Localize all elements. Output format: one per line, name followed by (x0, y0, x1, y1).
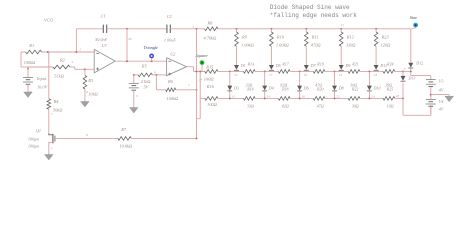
svg-text:100kΩ: 100kΩ (24, 60, 37, 65)
wire rail corner down (410, 29, 412, 63)
resistor R8 (205, 27, 219, 31)
wire chain2 to V4 (402, 98, 404, 115)
op-amp U3 (94, 49, 115, 73)
svg-text:19Ω: 19Ω (387, 103, 394, 108)
svg-text:D12: D12 (415, 61, 423, 66)
svg-text:D3: D3 (233, 85, 239, 90)
ground R3 (81, 102, 90, 108)
node Triangle flag (151, 58, 153, 61)
op-amp U2 (167, 58, 187, 76)
svg-text:4.70kΩ: 4.70kΩ (204, 36, 218, 41)
resistor R15 (200, 70, 205, 72)
node feedback (126, 28, 128, 30)
resistor R9 (236, 28, 238, 30)
svg-text:14: 14 (267, 94, 271, 98)
svg-text:D7: D7 (310, 63, 317, 68)
svg-text:R21: R21 (351, 62, 358, 67)
svg-text:D8: D8 (338, 85, 344, 90)
svg-text:R16: R16 (206, 84, 215, 89)
diode D7 (304, 65, 309, 70)
svg-text:100Ω: 100Ω (204, 77, 215, 82)
svg-text:V4: V4 (439, 99, 444, 104)
diode D1 (234, 65, 239, 70)
ground V2 (130, 108, 139, 114)
svg-text:330Ω: 330Ω (346, 42, 357, 47)
svg-text:Diode Shaped Sine wave: Diode Shaped Sine wave (270, 4, 350, 11)
resistor R10 (270, 28, 272, 30)
battery V4 (426, 98, 436, 100)
wire R12 to diode (340, 46, 342, 65)
svg-text:12: 12 (234, 73, 238, 77)
svg-text:47Ω: 47Ω (317, 103, 324, 108)
svg-text:D6: D6 (303, 85, 309, 90)
ground supply (431, 94, 449, 96)
diode D5 (269, 65, 274, 70)
wire D12 to V3 (411, 75, 431, 77)
svg-text:50kΩ: 50kΩ (53, 107, 63, 112)
svg-text:10kΩ: 10kΩ (88, 92, 98, 97)
node junction R1-R4 (47, 51, 49, 53)
diode D3 (229, 70, 231, 72)
svg-text:R3: R3 (87, 78, 94, 83)
wire chain1 segment 4 (375, 70, 377, 73)
svg-text:16: 16 (302, 94, 306, 98)
wire R2 to plus input (70, 66, 75, 68)
svg-text:U2: U2 (170, 51, 175, 56)
svg-text:30Ω: 30Ω (352, 103, 359, 108)
resistor R20 (290, 97, 313, 99)
svg-text:120Ω: 120Ω (381, 42, 392, 47)
svg-text:R6: R6 (167, 79, 174, 84)
svg-text:U3: U3 (102, 43, 107, 48)
svg-text:1.00kΩ: 1.00kΩ (276, 42, 290, 47)
wire square column (199, 71, 201, 118)
node battery top (27, 68, 29, 70)
svg-text:Triangle: Triangle (144, 45, 159, 50)
wire chain1 segment 3 (340, 70, 342, 73)
mosfet Q1 (49, 133, 53, 135)
svg-text:26: 26 (128, 37, 132, 41)
wire top rail (197, 28, 205, 30)
svg-text:Sine: Sine (410, 15, 417, 20)
svg-text:Input: Input (36, 76, 47, 81)
diode D13 (402, 71, 404, 76)
wire chain1 segment 1 (270, 70, 272, 73)
svg-text:28: 28 (396, 94, 400, 98)
svg-text:33Ω: 33Ω (247, 103, 254, 108)
resistor R4 (48, 52, 50, 99)
svg-text:470Ω: 470Ω (311, 42, 322, 47)
node Square flag (201, 65, 203, 71)
svg-text:1.00uF: 1.00uF (164, 37, 176, 42)
svg-text:R25: R25 (386, 86, 393, 91)
battery V1 Input (27, 67, 29, 77)
wire R9 to diode (236, 46, 238, 65)
svg-text:R5: R5 (141, 64, 148, 69)
resistor R17 (278, 70, 290, 74)
wire R10 to diode (270, 46, 272, 65)
svg-text:1.00kΩ: 1.00kΩ (241, 42, 255, 47)
wire chain1 right end (395, 70, 403, 72)
diode D4 (264, 70, 266, 72)
wire bottom long (58, 137, 118, 139)
wire U3 output (115, 60, 166, 62)
svg-text:C1: C1 (101, 14, 106, 19)
diode D8 (334, 70, 336, 72)
resistor R22 (325, 97, 348, 99)
svg-text:19: 19 (304, 73, 308, 77)
svg-text:V3: V3 (439, 78, 444, 83)
svg-text:10.0V: 10.0V (37, 84, 49, 89)
svg-text:R18: R18 (281, 86, 288, 91)
svg-text:D5: D5 (275, 63, 281, 68)
resistor R13 (244, 70, 256, 74)
svg-text:*falling edge needs work: *falling edge needs work (270, 12, 357, 19)
svg-text:100kΩ: 100kΩ (167, 96, 180, 101)
svg-text:C2: C2 (167, 14, 172, 19)
svg-text:51kΩ: 51kΩ (54, 74, 64, 79)
svg-text:D4: D4 (268, 85, 274, 90)
resistor R2 (53, 65, 70, 69)
svg-text:R14: R14 (246, 86, 253, 91)
resistor R3 (84, 69, 86, 75)
wire R7 to riser (131, 137, 196, 139)
svg-text:R13: R13 (247, 62, 254, 67)
svg-text:R17: R17 (281, 62, 289, 67)
svg-text:D10: D10 (373, 85, 381, 90)
wire riser net1 (196, 29, 198, 139)
wire left column (21, 51, 26, 53)
wire chain1 segment 0 (236, 70, 238, 73)
diode D11 (374, 65, 379, 70)
ground V1 (24, 92, 33, 98)
wire feedback drop (126, 29, 128, 61)
svg-text:R10: R10 (276, 34, 285, 39)
wire R2 row (28, 66, 53, 68)
svg-text:D1: D1 (240, 63, 246, 68)
node supply mid (430, 94, 432, 96)
resistor R23 (375, 28, 377, 30)
svg-text:R12: R12 (346, 34, 355, 39)
svg-text:R19: R19 (316, 62, 323, 67)
svg-text:R20: R20 (316, 86, 323, 91)
svg-text:17: 17 (269, 73, 273, 77)
resistor R1 (26, 50, 42, 54)
svg-text:R2: R2 (59, 58, 66, 63)
diode D12 (408, 63, 413, 68)
resistor R16 (200, 97, 205, 99)
node Sine flag (412, 28, 416, 29)
resistor R18 (255, 97, 278, 99)
svg-text:D11: D11 (379, 63, 387, 68)
svg-text:R15: R15 (205, 64, 214, 69)
diode D10 (368, 70, 370, 72)
resistor R12 (340, 28, 342, 30)
capacitor C2 (166, 25, 168, 33)
svg-text:R11: R11 (311, 34, 319, 39)
wire C2 right (170, 28, 196, 30)
svg-text:100μm: 100μm (28, 144, 39, 149)
battery V2 (133, 75, 135, 83)
resistor R21 (348, 70, 360, 74)
svg-text:R4: R4 (53, 99, 60, 104)
svg-text:24: 24 (371, 94, 375, 98)
resistor R5 (134, 74, 138, 76)
node R3 tap (84, 68, 86, 70)
wire R1 to opamp (42, 51, 95, 53)
resistor R14 (218, 97, 244, 99)
diode D6 (299, 70, 301, 72)
svg-text:4V: 4V (439, 107, 444, 112)
svg-text:R24: R24 (386, 62, 393, 67)
wire chain1 segment 2 (305, 70, 307, 73)
svg-text:21: 21 (339, 73, 343, 77)
svg-text:23: 23 (374, 73, 378, 77)
svg-text:VCO: VCO (44, 18, 54, 23)
svg-text:Square: Square (196, 53, 208, 58)
wire R23 to diode (375, 46, 377, 65)
svg-text:5V: 5V (144, 84, 149, 89)
svg-text:R9: R9 (241, 34, 248, 39)
diode D9 (339, 65, 344, 70)
svg-text:D13: D13 (408, 75, 416, 80)
svg-text:100Ω: 100Ω (207, 102, 218, 107)
resistor R24 (383, 70, 395, 74)
wire R11 to diode (305, 46, 307, 65)
capacitor C1 (75, 29, 77, 52)
svg-text:50.0nF: 50.0nF (95, 37, 107, 42)
svg-text:22: 22 (336, 94, 340, 98)
resistor R25 (360, 97, 383, 99)
wire U2 output (187, 66, 194, 68)
resistor R7 (118, 137, 132, 141)
wire C1 to C2 (107, 28, 167, 30)
svg-text:R1: R1 (28, 43, 34, 48)
svg-text:Q1: Q1 (36, 128, 41, 133)
svg-text:R8: R8 (207, 20, 214, 25)
resistor R6 feedback (155, 75, 157, 90)
svg-text:11: 11 (341, 23, 344, 27)
resistor R19 (313, 70, 325, 74)
ground Q1 (45, 155, 54, 161)
battery V3 (426, 79, 436, 81)
svg-text:D9: D9 (345, 63, 351, 68)
svg-text:13: 13 (232, 94, 236, 98)
svg-text:R23: R23 (381, 34, 390, 39)
svg-text:82Ω: 82Ω (282, 103, 289, 108)
svg-text:10.0kΩ: 10.0kΩ (119, 144, 133, 149)
svg-text:100μm: 100μm (28, 137, 39, 142)
svg-text:R22: R22 (351, 86, 358, 91)
wire chain2 right end (395, 97, 403, 99)
svg-text:4V: 4V (439, 88, 444, 93)
resistor R11 (305, 28, 307, 30)
svg-text:R7: R7 (120, 127, 127, 132)
